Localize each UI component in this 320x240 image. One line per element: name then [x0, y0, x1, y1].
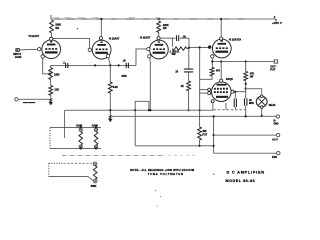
svg-text:6AQ5: 6AQ5: [226, 77, 233, 81]
pin plate V2: [99, 37, 102, 40]
svg-text:1 MEG.: 1 MEG.: [170, 49, 181, 53]
pin grid V2: [88, 48, 91, 51]
resistor R1 plate V1: [51, 33, 53, 37]
pin plate V4: [220, 37, 223, 40]
wire line to terminal 3: [214, 152, 277, 154]
wire B+ rail: [51, 18, 276, 20]
svg-text:6.3 V: 6.3 V: [272, 139, 278, 142]
wire output bus y61: [212, 61, 274, 63]
svg-text:MODEL 88-86: MODEL 88-86: [226, 179, 256, 183]
wire chassis dash line: [62, 154, 164, 156]
resistor R8 cathode V4: [211, 58, 213, 67]
svg-text:2K: 2K: [181, 85, 184, 88]
svg-text:1W: 1W: [55, 26, 59, 30]
svg-text:NE-51: NE-51: [269, 104, 276, 107]
svg-text:12K: 12K: [54, 88, 59, 92]
capacitor C3 coupling .02: [177, 35, 179, 41]
wire plate V2 to rail: [100, 19, 102, 37]
svg-text:5.6K: 5.6K: [113, 86, 118, 89]
pin top V5: [220, 79, 223, 82]
svg-text:POT: POT: [202, 133, 207, 136]
svg-text:1W: 1W: [163, 26, 167, 30]
potentiometer BAL: [93, 162, 97, 166]
wire ground bus: [18, 98, 51, 100]
pin cathode V3: [148, 55, 151, 58]
wire jog box above rail: [135, 101, 149, 110]
pin left grid1 V5: [208, 88, 211, 91]
wire to ground: [50, 95, 52, 99]
wire loop left vertical: [134, 110, 136, 146]
resistor R9 bleeder: [245, 62, 247, 72]
terminal B minus: [276, 115, 279, 118]
wire plate V5 riser: [220, 62, 222, 80]
wire plate V1 to grid V2: [53, 39, 90, 48]
wire screen V5 right: [234, 91, 246, 93]
svg-text:½ 12AX7: ½ 12AX7: [109, 37, 120, 41]
wire cathode V4 to feedback node: [200, 76, 213, 79]
wire cathode V1 down: [43, 58, 49, 74]
ground chassis: [50, 99, 52, 102]
tube V5 6AQ5: [212, 82, 232, 102]
pin right screen V5: [231, 90, 234, 93]
wire ground rail A: [65, 109, 214, 111]
wire grid stubs V5: [200, 89, 208, 91]
speck artifacts bottom: [213, 174, 214, 175]
wire cathode V3 to ground rail: [149, 58, 152, 110]
terminal B+ top right: [275, 19, 277, 21]
tube V3 1/2 12AX7: [150, 40, 169, 59]
wire feedback vertical x199.6: [199, 47, 201, 110]
pin cathode V4: [211, 55, 214, 58]
wire ground rail B: [112, 115, 276, 117]
wire input to grid V1: [19, 48, 37, 51]
pin plate V1: [50, 37, 53, 40]
capacitor C6 filter 40MFD: [245, 98, 247, 105]
svg-text:+250 V: +250 V: [272, 21, 282, 25]
capacitor C5 screen bypass: [234, 92, 236, 99]
pin grid V1: [38, 48, 41, 51]
speck artifact: [77, 28, 78, 29]
wire to pot 3 bottom: [49, 177, 94, 181]
pin bottom V5: [211, 100, 214, 103]
wire bottom pin V5: [212, 103, 214, 110]
wire cathode bus y65: [51, 65, 136, 67]
pin grid V3: [147, 48, 150, 51]
svg-text:470K: 470K: [121, 75, 127, 78]
svg-text:GND: GND: [274, 123, 279, 125]
svg-text:▬▬ ▬▬▬: ▬▬ ▬▬▬: [23, 101, 36, 104]
pot box top line: [50, 127, 101, 129]
resistor R4 to ground rail: [109, 65, 111, 82]
svg-text:PUT: PUT: [270, 68, 275, 72]
capacitor C2 on bus: [126, 63, 128, 68]
svg-text:500K: 500K: [91, 185, 97, 188]
pot box 2 outline: [48, 163, 50, 176]
pot box bottom line: [50, 147, 101, 149]
wire cathode V2 to bus: [109, 58, 111, 65]
pin plate V3: [157, 37, 160, 40]
tube V4 1/2 12AX7A: [212, 39, 231, 58]
wire right vertical x213.6: [213, 116, 215, 153]
resistor R7: [187, 81, 191, 91]
terminal ground lug: [15, 98, 18, 101]
terminal INPUT: [16, 49, 19, 52]
tube V2 1/2 12AX7: [92, 40, 111, 59]
wire riser to grid V3: [136, 49, 147, 66]
svg-text:½ 12AX7A: ½ 12AX7A: [229, 38, 242, 42]
ground chassis main: [109, 110, 111, 118]
tube V1 1/2 12AX7: [42, 40, 61, 59]
resistor R10 feedback: [199, 110, 201, 127]
pin cathode V2: [106, 54, 109, 57]
svg-text:½ 12AX7: ½ 12AX7: [140, 36, 151, 40]
pot box left dotted edge: [49, 128, 51, 149]
wire grid V4 from node: [189, 46, 209, 48]
svg-text:B-: B-: [274, 119, 277, 122]
svg-text:115V: 115V: [272, 156, 278, 159]
wire lamp to ground rail: [261, 108, 263, 115]
pin left grid2 V5: [208, 92, 211, 95]
svg-text:MFD: MFD: [249, 102, 254, 105]
svg-text:½ 12AX7: ½ 12AX7: [29, 34, 40, 38]
resistor R2 cathode V1 upper: [49, 68, 53, 80]
wire line to terminal 2: [214, 134, 277, 136]
wire plate V4 to rail: [220, 19, 222, 37]
svg-text:JACK: JACK: [15, 55, 22, 59]
capacitor C4 25MFD: [184, 69, 193, 72]
wire node down x189: [188, 38, 190, 69]
lamp NE-51: [246, 89, 262, 97]
wire dashed to pot 3: [64, 162, 93, 164]
resistor R3 cathode V1 lower: [50, 80, 52, 86]
pin cathode V1: [41, 55, 44, 58]
capacitor C1 on bus: [66, 63, 68, 68]
resistor R5 plate V3: [158, 18, 160, 20]
wire plate V3 right: [160, 37, 175, 39]
svg-text:1800: 1800: [54, 72, 60, 76]
svg-text:TUBE VOLTMETER: TUBE VOLTMETER: [148, 172, 184, 176]
svg-text:D C AMPLIFIER: D C AMPLIFIER: [227, 170, 265, 175]
resistor R6 1MEG grid leak: [171, 38, 173, 47]
wire loop bottom: [135, 145, 213, 147]
terminal OUTPUT: [274, 60, 277, 63]
wire from rail into pot box: [64, 110, 66, 138]
